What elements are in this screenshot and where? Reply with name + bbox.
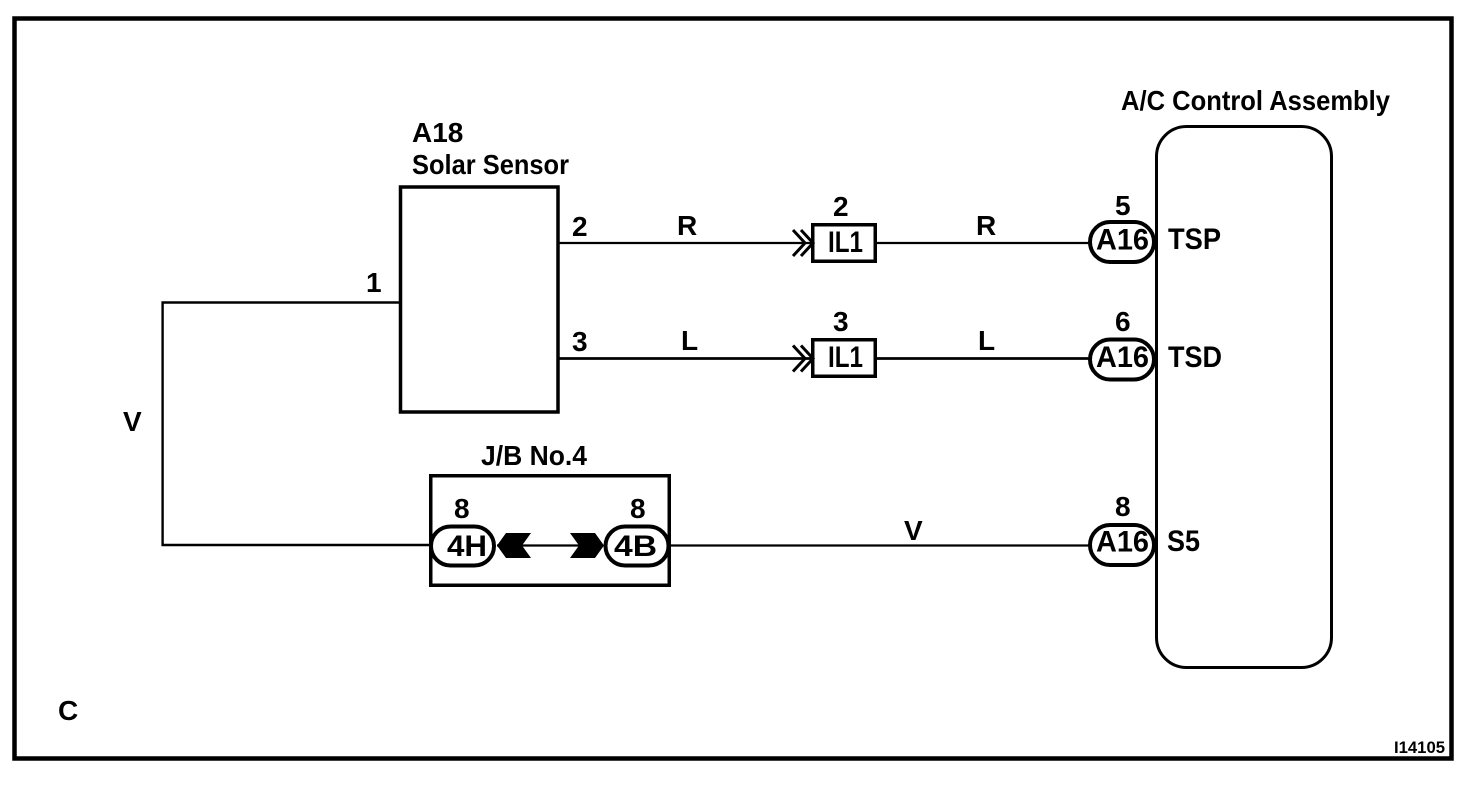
svg-text:8: 8 — [630, 493, 646, 524]
svg-text:C: C — [58, 695, 78, 726]
svg-text:TSP: TSP — [1168, 223, 1221, 256]
svg-text:8: 8 — [454, 493, 470, 524]
svg-text:6: 6 — [1115, 306, 1131, 337]
svg-text:V: V — [123, 406, 142, 437]
svg-text:4B: 4B — [614, 530, 657, 563]
svg-text:1: 1 — [366, 267, 382, 298]
svg-text:R: R — [677, 210, 697, 241]
svg-text:3: 3 — [833, 306, 849, 337]
svg-text:A18: A18 — [412, 117, 463, 148]
svg-text:Solar Sensor: Solar Sensor — [412, 149, 569, 180]
svg-text:L: L — [681, 325, 698, 356]
svg-text:A16: A16 — [1096, 224, 1149, 257]
svg-text:R: R — [976, 210, 996, 241]
svg-text:2: 2 — [833, 191, 849, 222]
svg-text:5: 5 — [1115, 190, 1131, 221]
svg-text:4H: 4H — [447, 530, 487, 563]
svg-text:IL1: IL1 — [828, 226, 863, 259]
svg-text:A16: A16 — [1096, 341, 1149, 374]
svg-text:3: 3 — [572, 326, 588, 357]
svg-text:L: L — [978, 325, 995, 356]
svg-text:J/B No.4: J/B No.4 — [481, 440, 587, 471]
svg-text:I14105: I14105 — [1394, 738, 1445, 757]
svg-text:V: V — [904, 515, 923, 546]
svg-text:S5: S5 — [1167, 525, 1200, 558]
svg-text:8: 8 — [1115, 491, 1131, 522]
svg-text:TSD: TSD — [1168, 341, 1222, 374]
svg-text:IL1: IL1 — [828, 341, 863, 374]
svg-text:2: 2 — [572, 211, 588, 242]
svg-text:A/C Control Assembly: A/C Control Assembly — [1121, 85, 1390, 116]
svg-text:A16: A16 — [1096, 526, 1149, 559]
